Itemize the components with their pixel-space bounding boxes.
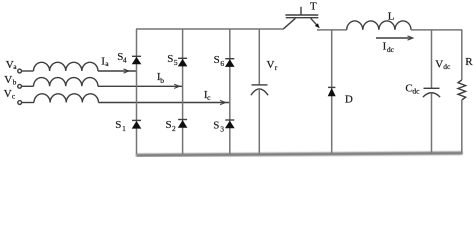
inductor La	[34, 62, 98, 71]
IGBT T collector lead	[284, 18, 296, 29]
svg-text:3: 3	[220, 125, 224, 134]
switch S2	[178, 120, 188, 128]
inductor Lb	[34, 78, 98, 87]
top DC rail	[136, 28, 284, 30]
svg-text:dc: dc	[443, 62, 451, 71]
label S3	[213, 120, 224, 134]
svg-text:S: S	[213, 120, 219, 132]
capacitor Cdc	[423, 88, 440, 97]
svg-text:c: c	[207, 93, 211, 102]
label S4	[117, 51, 127, 64]
capacitor Cdc branch lower wire	[431, 93, 433, 154]
svg-text:D: D	[345, 93, 353, 105]
label S5	[167, 53, 178, 67]
capacitor Vr branch upper wire	[258, 29, 260, 85]
IGBT T gate lead	[300, 7, 302, 15]
resistor R	[458, 80, 466, 100]
switch S4	[132, 56, 142, 64]
capacitor Cdc branch upper wire	[431, 30, 433, 88]
label Idc	[383, 40, 395, 54]
switch S5	[178, 58, 188, 66]
label S1	[115, 119, 126, 133]
svg-text:L: L	[388, 11, 395, 23]
wire Vb to Lb	[22, 85, 34, 87]
svg-text:a: a	[105, 59, 109, 68]
label Vdc	[435, 59, 451, 71]
wire Va to La	[22, 70, 34, 72]
svg-text:V: V	[4, 88, 12, 100]
source terminal Vc	[18, 101, 22, 105]
svg-text:1: 1	[122, 124, 126, 133]
label Vc	[4, 88, 16, 100]
label Ic	[204, 89, 211, 102]
svg-text:dc: dc	[387, 45, 395, 54]
current arrow Idc	[376, 36, 413, 40]
svg-text:2: 2	[172, 124, 176, 133]
svg-text:V: V	[4, 74, 12, 86]
bottom DC rail	[136, 151, 463, 157]
label S2	[166, 119, 177, 133]
svg-text:a: a	[13, 62, 17, 71]
label S6	[214, 54, 225, 68]
svg-text:5: 5	[174, 58, 178, 67]
svg-text:c: c	[12, 92, 16, 101]
wire phase a to leg 1	[98, 70, 137, 72]
IGBT T body bar	[286, 17, 319, 19]
label Va	[6, 59, 18, 71]
svg-text:4: 4	[123, 55, 127, 64]
capacitor Vr	[251, 85, 268, 95]
IGBT T emitter lead with arrow	[311, 18, 320, 28]
svg-text:T: T	[310, 0, 317, 12]
wire phase b to leg 2	[98, 85, 183, 87]
svg-text:R: R	[465, 56, 473, 68]
label Vr	[267, 59, 278, 72]
switch S1	[132, 120, 142, 128]
label Ib	[157, 71, 164, 85]
diode D	[328, 87, 336, 96]
svg-text:V: V	[435, 59, 443, 71]
source terminal Va	[18, 69, 22, 73]
current arrow Ia	[124, 69, 129, 73]
wire phase c to leg 3	[99, 102, 230, 104]
leg 2 wire	[182, 29, 184, 154]
leg 1 wire	[136, 29, 138, 154]
svg-text:S: S	[167, 53, 173, 65]
inductor L	[347, 21, 411, 30]
svg-text:V: V	[267, 59, 275, 71]
svg-text:S: S	[214, 54, 220, 66]
switch S6	[225, 59, 235, 67]
top rail from IGBT to inductor L	[317, 29, 347, 31]
load branch lower wire	[461, 100, 463, 154]
svg-text:S: S	[115, 119, 121, 131]
svg-text:dc: dc	[412, 87, 420, 96]
label Ia	[101, 55, 109, 68]
svg-text:b: b	[13, 78, 17, 87]
label Cdc	[405, 82, 420, 95]
label Vb	[4, 74, 16, 87]
inductor Lc	[34, 94, 98, 103]
svg-text:b: b	[160, 76, 164, 85]
current arrow Ic	[220, 100, 225, 104]
top rail from L to output	[411, 29, 462, 31]
current arrow Ib	[174, 84, 179, 88]
svg-text:S: S	[166, 119, 172, 131]
source terminal Vb	[18, 84, 22, 88]
switch S3	[225, 120, 235, 128]
load branch upper wire	[461, 30, 463, 80]
leg 3 wire	[229, 29, 231, 154]
capacitor Vr branch lower wire	[258, 89, 260, 154]
svg-text:6: 6	[220, 59, 224, 68]
freewheeling diode D branch wire	[331, 30, 333, 154]
wire Vc to Lc	[22, 102, 34, 104]
svg-text:r: r	[275, 63, 278, 72]
IGBT T gate bar	[285, 14, 318, 16]
